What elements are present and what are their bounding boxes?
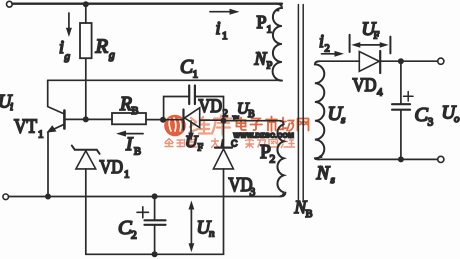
svg-text:F: F — [198, 143, 204, 154]
svg-text:4: 4 — [377, 87, 383, 99]
svg-text:B: B — [132, 106, 139, 117]
svg-text:P: P — [257, 12, 267, 32]
svg-text:VD: VD — [199, 96, 223, 117]
C3 top junction dot — [398, 58, 404, 64]
input terminal bottom — [3, 194, 9, 200]
svg-text:B: B — [134, 147, 141, 158]
zener diode VD1 — [72, 146, 100, 255]
diode VD2 — [163, 108, 224, 130]
svg-text:2: 2 — [131, 230, 137, 242]
svg-text:2: 2 — [270, 154, 276, 166]
watermark char 网 — [298, 119, 309, 131]
svg-text:B: B — [248, 109, 255, 120]
base wire to RB — [65, 118, 112, 120]
svg-text:i: i — [59, 37, 64, 57]
C1 branch wires — [164, 97, 224, 121]
svg-text:i: i — [10, 101, 13, 113]
svg-text:2: 2 — [325, 44, 330, 55]
diode VD4 — [359, 51, 380, 73]
capacitor C2 — [145, 196, 166, 254]
resistor Rg — [80, 23, 92, 58]
wire Rg top lead — [85, 4, 87, 23]
voltage arrow Un — [189, 201, 195, 253]
svg-text:g: g — [65, 51, 71, 63]
svg-text:N: N — [254, 49, 268, 69]
svg-text:C: C — [415, 104, 429, 126]
UF double arrow — [351, 42, 388, 48]
svg-text:I: I — [125, 134, 134, 155]
svg-text:VD: VD — [100, 157, 124, 178]
svg-text:i: i — [216, 18, 221, 38]
node dot B — [160, 117, 166, 123]
capacitor C1 — [189, 86, 195, 105]
collector wire to transformer — [48, 79, 282, 81]
svg-text:i: i — [319, 31, 324, 51]
C2 bottom junction dot — [152, 251, 158, 257]
svg-text:C: C — [118, 217, 132, 239]
svg-text:VT: VT — [14, 117, 37, 138]
resistor RB — [112, 113, 146, 124]
node: rail to Rg junction dot — [83, 1, 89, 7]
watermark char 场 — [280, 118, 294, 132]
secondary winding NS — [315, 61, 324, 159]
svg-text:R: R — [95, 36, 109, 58]
current arrow ig — [66, 13, 72, 37]
svg-text:g: g — [109, 50, 115, 62]
svg-text:F: F — [374, 31, 380, 42]
svg-text:n: n — [209, 228, 215, 240]
top rail wire — [12, 3, 282, 5]
C2 top junction dot — [152, 193, 158, 199]
wire Rg bottom lead to base junction — [85, 58, 87, 119]
base junction dot — [83, 116, 89, 122]
polarity dot P1 — [277, 9, 280, 12]
C3 bottom junction dot — [398, 156, 404, 162]
diode VD3 — [213, 121, 233, 255]
svg-text:3: 3 — [428, 117, 434, 129]
watermark seal logo — [164, 115, 186, 137]
current arrow IB — [116, 131, 143, 137]
svg-text:1: 1 — [222, 30, 228, 42]
bottom rail — [86, 253, 224, 255]
svg-text:o: o — [454, 113, 460, 125]
plus sign C2 — [137, 207, 149, 218]
bottom-left rail — [8, 193, 285, 197]
svg-text:1: 1 — [267, 24, 273, 36]
svg-text:s: s — [341, 114, 345, 126]
watermark char 电 — [237, 118, 247, 131]
wire RB to node — [146, 119, 163, 121]
UF measurement bars — [350, 35, 391, 54]
svg-text:P: P — [267, 61, 273, 72]
watermark char 市 — [266, 117, 277, 132]
svg-text:B: B — [306, 209, 313, 220]
transformer primary P1 winding — [273, 4, 282, 81]
input terminal top — [6, 1, 12, 7]
svg-text:WWW.DZSC.COM: WWW.DZSC.COM — [234, 133, 295, 140]
watermark char 库 (outline) — [212, 116, 231, 135]
svg-text:1: 1 — [124, 169, 130, 181]
output terminal bottom — [438, 156, 444, 162]
svg-text:VD: VD — [353, 75, 377, 96]
capacitor C3 — [392, 61, 410, 159]
current arrow i1 — [210, 9, 240, 15]
svg-text:s: s — [331, 174, 335, 186]
watermark char 维 (outline) — [190, 117, 210, 134]
svg-text:1: 1 — [38, 129, 44, 141]
watermark char 子 — [251, 119, 263, 131]
secondary top wire — [319, 60, 438, 62]
polarity dot NS — [320, 155, 323, 158]
output terminal top — [438, 58, 444, 64]
transformer winding P2 — [277, 124, 283, 196]
svg-text:R: R — [119, 94, 132, 115]
transistor VT1 — [47, 80, 65, 196]
plus sign C3 — [404, 92, 414, 102]
voltage arrow UF (base) — [188, 121, 194, 142]
transformer core — [298, 5, 303, 200]
svg-text:N: N — [316, 163, 331, 184]
svg-text:1: 1 — [193, 69, 199, 81]
watermark row 全球最大IC采购网站 — [165, 139, 295, 148]
secondary bottom wire — [319, 158, 438, 160]
node dot P2-top — [221, 118, 227, 124]
wire node to P2 winding — [224, 121, 284, 125]
emitter junction dot — [45, 194, 51, 200]
current arrow i2 — [322, 51, 345, 57]
